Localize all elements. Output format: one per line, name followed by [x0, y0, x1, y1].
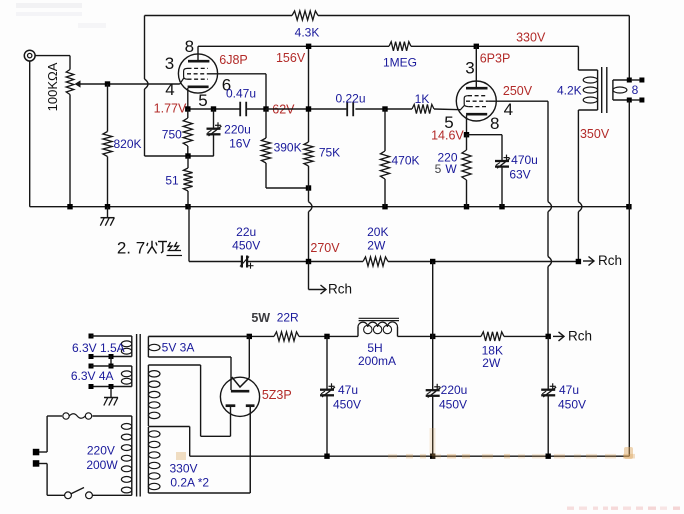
svg-text:250V: 250V [503, 84, 533, 98]
terminal square 6.3V-4A bot b [109, 384, 114, 389]
tube U3 5Z3P envelope [220, 377, 259, 416]
tube U3 plate right lead [249, 406, 251, 493]
wire mains top [47, 415, 132, 417]
label 330V HV [169, 462, 197, 476]
transformer T1 winding HV lower [148, 427, 160, 493]
wire coupling row to 6P3P grid [266, 108, 460, 111]
tube U3 plate left [226, 404, 236, 407]
node junction 470K-gnd [382, 204, 387, 209]
svg-text:450V: 450V [439, 398, 467, 412]
wire HV center tap [148, 427, 189, 457]
wire HV top to left plate [148, 365, 230, 436]
label 8 ohm [632, 83, 639, 97]
wire jack to pot top [35, 56, 70, 70]
label 14.6V [431, 129, 464, 143]
svg-text:0.2A *2: 0.2A *2 [170, 476, 209, 490]
label 450V first [333, 398, 361, 412]
svg-text:47u: 47u [338, 383, 358, 397]
svg-text:5Z3P: 5Z3P [262, 388, 292, 402]
tube U2 cathode lead pin8 [466, 115, 468, 134]
label 750 [162, 128, 182, 142]
svg-text:1.77V: 1.77V [154, 102, 187, 116]
wire feedback top rail from node A to output secondary [145, 15, 630, 17]
terminal square 6.3V-4A top a [89, 364, 94, 369]
label 250V [503, 84, 533, 98]
label 470u [511, 153, 538, 167]
label 75K [319, 146, 340, 160]
ground symbol main [100, 207, 114, 226]
tube U1 cathode bar [188, 85, 209, 88]
svg-text:470u: 470u [511, 153, 538, 167]
svg-text:0.22u: 0.22u [335, 92, 365, 106]
svg-text:20K: 20K [367, 225, 388, 239]
switch S1 power [65, 488, 93, 499]
transformer T1 winding 5V 3A [148, 336, 160, 357]
wire 6.3V-1.5A top [91, 335, 132, 337]
svg-text:16V: 16V [229, 137, 250, 151]
label 47u last [559, 383, 579, 397]
label 5 W [435, 162, 458, 176]
label 20K [367, 225, 388, 239]
tube U3 filament V [232, 377, 249, 387]
tube U3 plate right [246, 404, 255, 407]
resistor R 20K 2W [363, 257, 388, 266]
svg-text:820K: 820K [113, 137, 141, 151]
resistor R 4.3K (feedback) [292, 11, 318, 20]
svg-text:Rch: Rch [568, 329, 592, 344]
svg-text:4.2K: 4.2K [557, 84, 582, 98]
svg-text:63V: 63V [509, 168, 530, 182]
wire 270V Rch stub [308, 262, 310, 290]
tube U2 plate lead pin3 [475, 46, 477, 88]
node junction 18K-47u [546, 334, 551, 339]
wire mains left top drop [46, 416, 48, 452]
svg-text:2W: 2W [367, 239, 386, 253]
resistor R 22R 5W [274, 332, 299, 341]
tube U2 6P3P envelope [456, 81, 496, 121]
terminal square sec bot left [627, 98, 632, 103]
label 270V [310, 241, 340, 255]
resistor R 220 5W [462, 135, 471, 207]
node junction (385,109) [382, 106, 387, 111]
resistor R 75K [304, 109, 313, 188]
label 470K [391, 154, 419, 168]
svg-text:200mA: 200mA [358, 354, 396, 368]
tube U3 plate left lead [230, 406, 232, 407]
node junction (578.4,261.5) [576, 259, 581, 264]
terminal square sec top right [631, 78, 644, 83]
svg-text:350V: 350V [580, 127, 610, 141]
wire hop 350V-over-ground at (578.4,206.7) [578, 202, 582, 212]
label 6P3P [480, 52, 511, 66]
capacitor C 47u 450V first filter [320, 336, 335, 456]
wire 5V top continues to junction [190, 335, 249, 337]
node junction (476.3,46.3) [474, 44, 479, 49]
transformer T1 winding HV upper [148, 365, 160, 426]
svg-text:6.3V 4A: 6.3V 4A [71, 369, 114, 383]
label 4.3K [295, 26, 320, 40]
capacitor C 470u 63V electrolytic [495, 155, 510, 207]
capacitor C 0.47u [240, 102, 246, 117]
resistor R 750 [183, 109, 192, 156]
svg-text:330V: 330V [169, 462, 197, 476]
label 6.3V 1.5A [72, 341, 125, 355]
potentiometer VR1 100K zigzag [66, 70, 74, 95]
svg-text:5: 5 [435, 162, 442, 176]
svg-text:6P3P: 6P3P [480, 52, 511, 66]
tube U3 filament bar [231, 390, 249, 393]
terminal square sec top left [627, 78, 632, 83]
label 1K [415, 92, 430, 106]
svg-text:8: 8 [185, 37, 194, 56]
resistor R 1K [412, 104, 434, 113]
svg-text:4: 4 [165, 80, 174, 99]
svg-text:4.3K: 4.3K [295, 26, 320, 40]
resistor R 390K [261, 109, 270, 188]
wire 390K bottom to 75K bottom [266, 187, 309, 189]
tube U3 filament lead to B+ [248, 336, 250, 377]
label 5W [251, 311, 270, 325]
pin 5 label U2 [444, 113, 453, 132]
wire hop screen-over-ground at (548,206.7) [548, 202, 552, 212]
wire grid1 from pot to 6J8P pin4 [108, 83, 180, 85]
label 200mA [358, 354, 396, 368]
label 0.47u [226, 87, 256, 101]
pin 6 label [222, 76, 231, 95]
svg-text:5: 5 [198, 91, 207, 110]
capacitor C 0.22u [347, 102, 353, 117]
transformer T1 winding 220V primary [121, 416, 131, 495]
node junction 22R-47u [324, 334, 329, 339]
svg-text:330V: 330V [516, 31, 546, 45]
capacitor C 220u 16V electrolytic [207, 109, 222, 156]
pin 5 label [198, 91, 207, 110]
wire OPT secondary bottom [613, 99, 629, 101]
wire OPT primary bottom [578, 109, 597, 111]
node junction (308.5,188) [306, 185, 311, 190]
transformer T1 core [137, 334, 141, 497]
node junction 14.6V [464, 132, 469, 137]
wire mains left bottom drop [46, 464, 48, 496]
svg-text:1K: 1K [415, 92, 430, 106]
svg-text:200W: 200W [86, 458, 118, 472]
label 5Z3P [262, 388, 292, 402]
wire 820K bottom [107, 157, 109, 207]
wire bottom rail y=456.2 [190, 455, 630, 457]
wire jack ground drop [29, 61, 31, 207]
label Rch 1 [598, 253, 622, 268]
wire 156V node drop x=308.5 [308, 46, 310, 109]
label Rch 3 [568, 329, 592, 344]
svg-text:750: 750 [162, 128, 182, 142]
svg-text:6J8P: 6J8P [219, 53, 248, 67]
label 450V 22u [232, 239, 260, 253]
transformer T1 winding 6.3V 4A [121, 366, 131, 387]
label 4.2K [557, 84, 582, 98]
pin 4 label [165, 80, 174, 99]
svg-text:450V: 450V [558, 398, 586, 412]
wire cathode to 470u [467, 135, 503, 161]
node junction 51-gnd [185, 204, 190, 209]
svg-text:W: W [445, 162, 457, 176]
label 350V [580, 127, 610, 141]
label 2W 18K [482, 356, 501, 370]
tube U2 grid dashes [460, 96, 489, 111]
node junction (188,156) [185, 153, 190, 158]
wire 6.3V-4A top [91, 365, 132, 367]
label 5H [367, 341, 382, 355]
capacitor C 22u 450V electrolytic [240, 256, 254, 269]
label 63V [509, 168, 530, 182]
node junction 47u-bottom [324, 454, 329, 459]
svg-text:Rch: Rch [598, 253, 622, 268]
svg-text:220u: 220u [224, 123, 251, 137]
svg-text:390K: 390K [274, 141, 302, 155]
pin 4 label U2 [504, 100, 513, 119]
label 2.7 filament (chinese) [117, 239, 182, 258]
resistor R 1MEG [389, 42, 411, 51]
label 220V [87, 444, 115, 458]
label 1MEG [383, 56, 417, 70]
wire cathode bottom row y=156 [145, 155, 214, 157]
tube U1 cathode lead pin5 [187, 88, 189, 109]
tube U1 grid dashes [180, 68, 209, 84]
svg-text:5V 3A: 5V 3A [162, 341, 195, 355]
wire 75K node down to 270V node [308, 188, 310, 262]
wire OPT secondary top [613, 79, 629, 81]
svg-text:47u: 47u [559, 383, 579, 397]
svg-text:220V: 220V [87, 444, 115, 458]
wire ground rail y=206.7 [30, 206, 629, 208]
resistor R 51 [183, 156, 192, 207]
svg-text:5W: 5W [251, 311, 270, 325]
svg-text:450V: 450V [333, 398, 361, 412]
label 1.77V [154, 102, 187, 116]
terminal square sec bot right [631, 98, 644, 103]
fuse F1 [63, 413, 92, 419]
label 0.2A *2 [170, 476, 209, 490]
node junction 62V [263, 106, 268, 111]
input jack J1 [24, 50, 35, 61]
wire mains bottom [47, 494, 132, 496]
label 200W [86, 458, 118, 472]
node junction pot-gnd [67, 204, 72, 209]
arrow Rch at 270V node [309, 285, 327, 294]
capacitor C 220u 450V filter [426, 262, 441, 457]
node junction 220u-bottom [430, 454, 435, 459]
wire hop 75K-over-ground at (308.5,206.7) [309, 202, 313, 212]
node junction right-gnd [626, 204, 631, 209]
transformer T2 core [602, 67, 607, 113]
wire HV bottom to right plate [148, 407, 250, 493]
wire OPT primary top riser [578, 46, 597, 70]
tube U1 plate bar [188, 60, 209, 63]
label 51 [165, 174, 179, 188]
node junction (308.6,46.3) [306, 44, 311, 49]
transformer T2 primary winding 4.2K [583, 70, 597, 110]
node junction (432.7,261.5) [430, 259, 435, 264]
wire hop screen-over-270V at (548,261.5) [548, 257, 552, 267]
node junction 47u2-bottom [546, 454, 551, 459]
label 220 [437, 151, 457, 165]
svg-text:6.3V 1.5A: 6.3V 1.5A [72, 341, 125, 355]
wire 5V top [148, 335, 190, 337]
wire 5V bottom to 5Z3P filament [148, 357, 231, 390]
wire 270V row [189, 261, 578, 263]
label 220u 450V [441, 383, 468, 397]
pin 3 label [165, 54, 174, 73]
label 22R [277, 311, 299, 325]
node junction 820K-gnd [105, 204, 110, 209]
terminal square 6.3V-4A bot a [89, 384, 94, 389]
resistor R 820K [103, 132, 112, 157]
label 2W 20K [367, 239, 386, 253]
svg-text:470K: 470K [391, 154, 419, 168]
label 0.22u [335, 92, 365, 106]
node junction 270V [306, 259, 311, 264]
svg-text:51: 51 [165, 174, 179, 188]
svg-text:2W: 2W [482, 356, 501, 370]
svg-text:1MEG: 1MEG [383, 56, 417, 70]
potentiometer wiper arrow [75, 80, 108, 87]
label 6J8P [219, 53, 248, 67]
capacitor C 47u 450V last filter [541, 336, 556, 456]
node junction 470u-gnd [499, 204, 504, 209]
wire 6.3V-4A bottom [91, 386, 132, 388]
svg-text:22R: 22R [277, 311, 299, 325]
label Rch 2 [328, 282, 352, 297]
svg-text:8: 8 [490, 114, 499, 133]
terminal square 6.3V-1.5A top [89, 334, 94, 339]
wire secondary bottom drop x=629.3 [628, 100, 630, 456]
node junction rectifier out [247, 334, 252, 339]
svg-text:14.6V: 14.6V [431, 129, 464, 143]
plug prong bottom [33, 460, 47, 467]
svg-text:75K: 75K [319, 146, 340, 160]
svg-text:3: 3 [165, 54, 174, 73]
label 5V 3A [162, 341, 195, 355]
svg-text:156V: 156V [276, 51, 306, 65]
wire OPT primary bottom riser 350V [577, 110, 579, 262]
label 820K [113, 137, 141, 151]
label 6.3V 4A [71, 369, 114, 383]
node junction 220R-gnd [464, 204, 469, 209]
svg-text:Rch: Rch [328, 282, 352, 297]
node junction choke-220u [430, 334, 435, 339]
label 330V [516, 31, 546, 45]
tube U2 plate bar [466, 87, 488, 90]
tube U1 6J8P envelope [178, 54, 217, 93]
ground symbol heater [104, 387, 118, 406]
label 220u [224, 123, 251, 137]
label 22u [236, 225, 256, 239]
svg-text:3: 3 [465, 59, 474, 78]
label 47u first [338, 383, 358, 397]
svg-text:4: 4 [504, 100, 513, 119]
wire cathode row y=109 [188, 108, 266, 110]
wire B+ row [148, 335, 548, 337]
node junction 220u top [211, 106, 216, 111]
wire link between 6.3 windings [110, 357, 112, 367]
tube U1 plate lead pin8 [197, 46, 199, 61]
wire 6P3P screen pin4 to 18K node [489, 101, 548, 336]
label 156V [276, 51, 306, 65]
arrow Rch right of 350V node [583, 257, 594, 266]
label 390K [274, 141, 302, 155]
node junction cathode 1.77V [185, 106, 190, 111]
label 16V [229, 137, 250, 151]
label 62V [272, 103, 295, 117]
wire pot bottom to ground rail [69, 95, 71, 207]
svg-text:100KΩA: 100KΩA [45, 62, 60, 111]
wire 6J8P pin6 to 62V node [209, 74, 266, 109]
node junction (107.5,84) [105, 81, 110, 86]
node junction (308.5,109) [306, 106, 311, 111]
plug prong top [33, 449, 47, 456]
inductor L 5H choke [358, 318, 399, 336]
wire 6.3V-1.5A bottom [91, 356, 132, 358]
terminal square 6.3V-1.5A bot b [109, 354, 114, 359]
wire hop feedback-over-grid at (144.5,84) [145, 79, 149, 89]
svg-text:450V: 450V [232, 239, 260, 253]
wire feedback left drop x=144.5 [144, 16, 146, 157]
resistor R 470K [380, 109, 389, 207]
pin 8 label [185, 37, 194, 56]
svg-text:2. 7: 2. 7 [117, 239, 145, 258]
terminal square 6.3V-4A top b [109, 364, 114, 369]
svg-text:0.47u: 0.47u [226, 87, 256, 101]
terminal square 6.3V-1.5A bot a [89, 354, 94, 359]
tube U2 cathode bar [466, 113, 487, 116]
label 18K [482, 344, 503, 358]
transformer T1 winding 6.3V 1.5A [121, 336, 131, 357]
transformer T2 secondary winding [613, 80, 627, 100]
svg-text:220u: 220u [441, 383, 468, 397]
resistor R 18K 2W [481, 332, 504, 341]
label 450V mid [439, 398, 467, 412]
pin 3 label U2 [465, 59, 474, 78]
svg-text:22u: 22u [236, 225, 256, 239]
pin 8 label U2 [490, 114, 499, 133]
wire top rail right drop [628, 16, 630, 79]
svg-text:8: 8 [632, 83, 639, 97]
label 450V last [558, 398, 586, 412]
arrow Rch at 18K node [553, 332, 564, 341]
wire 820K top [107, 84, 109, 132]
wire 22u left drop [188, 207, 190, 262]
svg-text:5H: 5H [367, 341, 382, 355]
svg-text:270V: 270V [310, 241, 340, 255]
wire plate rail y=46.3 [198, 45, 578, 47]
label 100KΩA rotated [45, 62, 60, 111]
